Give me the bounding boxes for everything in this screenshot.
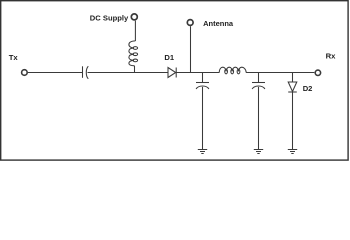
wire C1 to D1: [88, 72, 169, 74]
svg-text:DC Supply: DC Supply: [90, 13, 129, 22]
wire Tx to C1: [28, 72, 83, 74]
capacitor C2: [202, 73, 204, 83]
diode D1: [168, 68, 176, 78]
svg-text:D2: D2: [303, 84, 313, 93]
svg-text:Antenna: Antenna: [203, 19, 234, 28]
ground GND3: [288, 150, 297, 154]
ground GND2: [254, 150, 263, 154]
wire D2 to ground: [292, 92, 294, 150]
svg-text:Tx: Tx: [9, 53, 19, 62]
wire DC supply to L1: [134, 21, 136, 41]
wire antenna to main line: [190, 26, 192, 72]
border frame: [1, 1, 348, 160]
wire L2 to Rx: [246, 72, 314, 74]
capacitor C1: [82, 66, 84, 78]
wire D1 to L2: [176, 72, 219, 74]
wire L1 to main line: [134, 66, 136, 73]
node Rx terminal: [315, 70, 320, 75]
svg-text:D1: D1: [164, 53, 174, 62]
capacitor C3: [258, 73, 260, 83]
inductor L1: [129, 41, 136, 66]
node Tx terminal: [22, 70, 28, 76]
inductor L2: [219, 67, 246, 72]
diode D2: [292, 73, 294, 83]
wire C2 to ground: [202, 87, 204, 150]
ground GND1: [198, 150, 207, 154]
wire C3 to ground: [258, 87, 260, 150]
node antenna terminal: [187, 20, 193, 26]
svg-text:Rx: Rx: [326, 51, 337, 60]
node DC supply terminal: [131, 14, 137, 20]
